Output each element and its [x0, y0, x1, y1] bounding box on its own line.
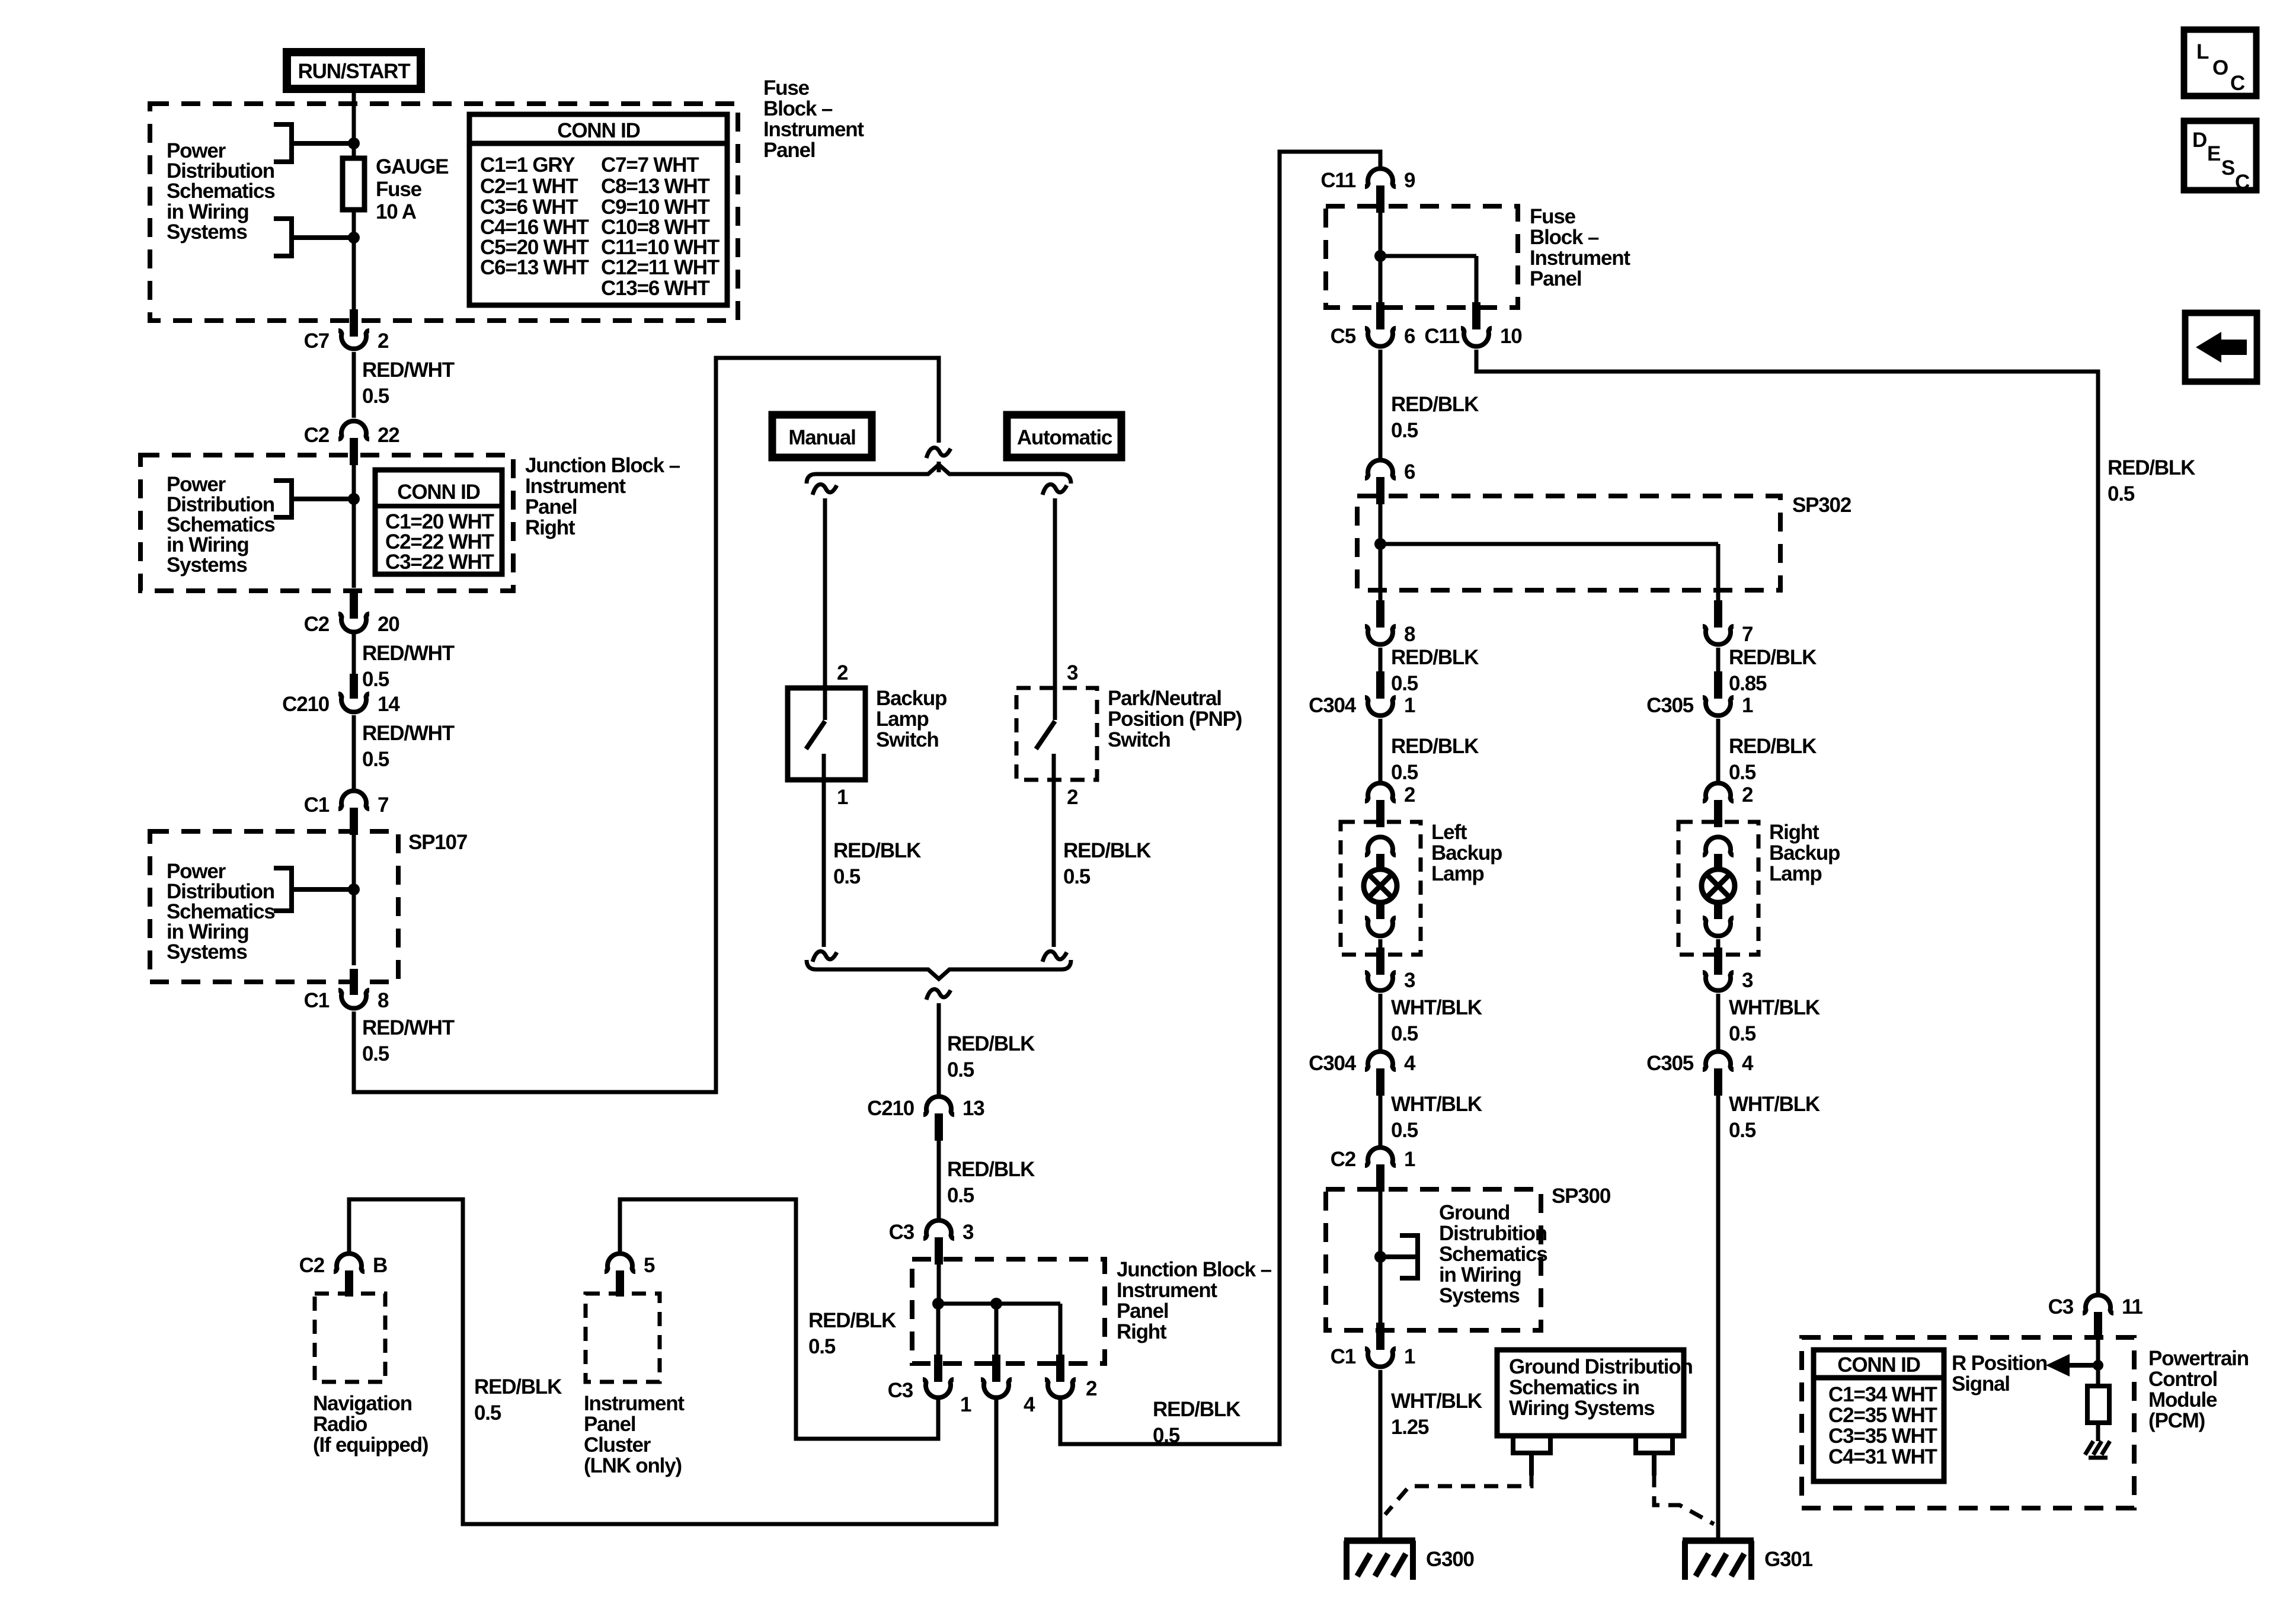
- junction block dashed box (instrument panel right): [140, 455, 513, 591]
- svg-text:Powertrain: Powertrain: [2148, 1347, 2249, 1370]
- wire label RED/BLK 0.5 (automatic): [1063, 839, 1151, 888]
- wire label WHT/BLK 0.5 (right): [1729, 996, 1820, 1045]
- svg-text:4: 4: [1024, 1393, 1035, 1416]
- svg-text:14: 14: [378, 693, 400, 716]
- connector C304 pin 4: [1309, 1051, 1416, 1096]
- text Junction Block - Instrument Panel Right (bottom): [1117, 1258, 1272, 1343]
- svg-text:C3=22 WHT: C3=22 WHT: [385, 550, 494, 574]
- connector C2 pin B (navigation radio): [299, 1253, 387, 1297]
- svg-text:C2=35 WHT: C2=35 WHT: [1828, 1404, 1937, 1427]
- wire through junction block: [352, 465, 356, 588]
- svg-text:RED/BLK: RED/BLK: [1729, 735, 1817, 758]
- svg-text:(LNK only): (LNK only): [584, 1454, 682, 1477]
- svg-text:RED/WHT: RED/WHT: [362, 722, 455, 745]
- svg-text:RED/BLK: RED/BLK: [474, 1375, 562, 1398]
- svg-text:2: 2: [1086, 1377, 1097, 1400]
- connector C210 pin 14: [282, 674, 400, 716]
- svg-text:0.5: 0.5: [947, 1058, 974, 1081]
- svg-text:RED/BLK: RED/BLK: [2108, 456, 2195, 479]
- svg-text:CONN ID: CONN ID: [557, 119, 639, 142]
- svg-text:C3: C3: [2048, 1295, 2074, 1318]
- svg-text:Block –: Block –: [1530, 226, 1599, 249]
- svg-text:0.5: 0.5: [1391, 419, 1418, 442]
- node junction dot SP107: [348, 884, 360, 895]
- node junction dot in junction block: [348, 493, 360, 505]
- Automatic tag box: [1007, 415, 1121, 457]
- connector pin 6 (SP302): [1365, 460, 1415, 504]
- left backup lamp: [1341, 821, 1502, 955]
- svg-text:WHT/BLK: WHT/BLK: [1729, 996, 1820, 1019]
- svg-text:8: 8: [378, 989, 389, 1012]
- svg-text:RED/BLK: RED/BLK: [1391, 646, 1479, 669]
- wire C5-6 to splice 6: [1379, 350, 1383, 458]
- svg-text:C210: C210: [282, 693, 330, 716]
- wire label RED/WHT 0.5: [362, 722, 455, 771]
- svg-text:Fuse: Fuse: [763, 76, 810, 100]
- svg-text:0.5: 0.5: [2108, 482, 2135, 505]
- svg-text:D: D: [2192, 129, 2207, 152]
- squiggle left branch bottom: [813, 951, 837, 962]
- svg-text:3: 3: [1742, 969, 1753, 992]
- svg-text:13: 13: [962, 1097, 984, 1120]
- svg-text:C: C: [2235, 171, 2250, 194]
- svg-text:Junction Block –: Junction Block –: [525, 454, 680, 477]
- wire continuation squiggle (top middle): [926, 447, 951, 458]
- wire 3 to C304-4: [1379, 994, 1383, 1049]
- text Ground Distrubition Schematics in Wiring Systems (SP300): [1439, 1201, 1547, 1307]
- connector C1 pin 7: [304, 790, 389, 835]
- svg-text:C2: C2: [304, 424, 330, 447]
- wire label RED/WHT 0.5: [362, 359, 455, 408]
- svg-text:Instrument: Instrument: [525, 475, 626, 498]
- svg-text:10 A: 10 A: [376, 200, 417, 223]
- svg-text:Systems: Systems: [1439, 1284, 1520, 1307]
- wire C304-1 to pin 2: [1379, 719, 1383, 781]
- svg-text:0.5: 0.5: [362, 385, 389, 408]
- svg-text:SP300: SP300: [1552, 1185, 1611, 1208]
- svg-text:Wiring Systems: Wiring Systems: [1509, 1397, 1655, 1420]
- junction block dashed box (bottom, instrument panel right): [912, 1259, 1105, 1363]
- wire C210 to C1: [352, 715, 356, 789]
- connector C1 pin 1 (SP300 out): [1331, 1323, 1415, 1368]
- wire PNP bottom pin 2: [1052, 754, 1056, 947]
- svg-text:Backup: Backup: [1431, 841, 1502, 865]
- svg-text:RED/BLK: RED/BLK: [1729, 646, 1817, 669]
- svg-text:C1: C1: [1331, 1345, 1356, 1368]
- connector C11 pin 9: [1320, 168, 1415, 213]
- svg-text:Instrument: Instrument: [1530, 247, 1630, 270]
- wires inside SP302: [1380, 504, 1718, 601]
- node junction dot below fuse: [348, 232, 360, 244]
- svg-text:7: 7: [378, 793, 388, 817]
- svg-text:0.5: 0.5: [1063, 865, 1091, 888]
- svg-text:SP107: SP107: [408, 831, 467, 854]
- PNP switch dashed box: [1016, 688, 1097, 780]
- svg-text:C2=1 WHT: C2=1 WHT: [480, 175, 578, 198]
- svg-text:C3: C3: [888, 1379, 913, 1402]
- svg-text:C2: C2: [304, 613, 330, 636]
- splice hook symbol (left): [1511, 1436, 1553, 1475]
- svg-text:Systems: Systems: [167, 940, 247, 964]
- svg-text:Schematics: Schematics: [167, 180, 275, 203]
- svg-text:RED/WHT: RED/WHT: [362, 1016, 455, 1039]
- svg-text:CONN ID: CONN ID: [397, 481, 479, 504]
- wire switch bottom pin 1: [822, 754, 826, 947]
- svg-text:0.5: 0.5: [474, 1401, 501, 1425]
- svg-text:10: 10: [1500, 325, 1522, 348]
- svg-text:RUN/START: RUN/START: [298, 60, 411, 83]
- text Power Distribution Schematics in Wiring Systems (junction block): [167, 473, 275, 577]
- svg-text:0.5: 0.5: [362, 1042, 389, 1065]
- text Powertrain Control Module (PCM): [2148, 1347, 2249, 1432]
- DESC reference box: [2184, 121, 2256, 194]
- wire right branch to PNP switch: [1053, 498, 1057, 720]
- wire C7 to C2: [352, 352, 356, 418]
- wire to C210-13: [937, 1003, 941, 1094]
- svg-text:C3=35 WHT: C3=35 WHT: [1828, 1425, 1937, 1448]
- svg-text:11: 11: [2122, 1295, 2142, 1318]
- svg-text:C12=11 WHT: C12=11 WHT: [601, 256, 720, 279]
- svg-text:Fuse: Fuse: [376, 178, 422, 201]
- text Fuse Block - Instrument Panel (left): [763, 76, 864, 162]
- fuse GAUGE 10A: [343, 155, 448, 223]
- svg-text:C1: C1: [304, 793, 330, 817]
- svg-text:C6=13 WHT: C6=13 WHT: [480, 256, 589, 279]
- wire resistor to ground: [2096, 1423, 2100, 1441]
- svg-text:Panel: Panel: [1530, 267, 1581, 290]
- connector pin 2 (right lamp): [1703, 783, 1753, 827]
- wire label RED/BLK 0.5 (nav): [474, 1375, 562, 1425]
- connector C2 pin 22: [304, 421, 400, 465]
- wire label RED/BLK 0.5 (manual): [833, 839, 921, 888]
- connector C305 pin 1: [1646, 671, 1753, 717]
- splice hook symbol (right): [1633, 1436, 1675, 1475]
- svg-text:B: B: [373, 1254, 387, 1277]
- svg-text:Systems: Systems: [167, 220, 247, 244]
- wire navigation radio C2-B loop to C3-4: [349, 1199, 996, 1524]
- svg-text:0.5: 0.5: [1729, 761, 1756, 784]
- svg-text:1.25: 1.25: [1391, 1416, 1429, 1439]
- wire label RED/BLK 0.85 (right leg): [1729, 646, 1817, 695]
- svg-text:S: S: [2221, 156, 2234, 180]
- wire C1-8 down, right and up to switches feed: [354, 358, 939, 1092]
- svg-text:C305: C305: [1646, 1052, 1694, 1075]
- wire through SP107: [352, 835, 356, 965]
- CONN ID table (fuse block): [469, 114, 727, 305]
- svg-text:Automatic: Automatic: [1017, 426, 1112, 449]
- fuse block dashed box (instrument panel): [150, 104, 738, 321]
- wire C305-4 down to G301: [1716, 1096, 1721, 1538]
- svg-text:Manual: Manual: [788, 426, 855, 449]
- svg-text:WHT/BLK: WHT/BLK: [1391, 1390, 1482, 1413]
- wire C11-10 to PCM C3-11: [1476, 350, 2098, 1293]
- svg-text:Lamp: Lamp: [876, 708, 929, 731]
- Manual tag box: [772, 415, 872, 457]
- connector C7 pin 2: [304, 309, 389, 353]
- wire label RED/BLK 0.5 (left of junction block): [808, 1309, 896, 1358]
- wire label RED/BLK 0.5: [947, 1032, 1035, 1081]
- svg-text:5: 5: [644, 1254, 655, 1277]
- wires inside right fuse block: [1380, 213, 1476, 303]
- svg-text:WHT/BLK: WHT/BLK: [1391, 996, 1482, 1019]
- connector C3 pin 11 (PCM): [2048, 1295, 2143, 1339]
- node dot C3-1 branch: [932, 1298, 944, 1310]
- wires inside junction block with bus: [938, 1265, 1060, 1355]
- wire C210-13 to C3-3: [937, 1141, 941, 1218]
- svg-text:Right: Right: [1117, 1320, 1167, 1343]
- wire instrument panel cluster loop to C3-1: [620, 1199, 938, 1439]
- connector pin 2 (left lamp): [1365, 783, 1415, 827]
- node junction dot above fuse: [348, 137, 360, 149]
- PCM dashed box: [1802, 1337, 2134, 1508]
- svg-text:C210: C210: [867, 1097, 914, 1120]
- wire C3-2 big loop up to C11-9: [1060, 152, 1380, 1444]
- reference bracket to Power Distribution Schematics (upper): [274, 122, 354, 164]
- svg-text:Switch: Switch: [1108, 728, 1171, 751]
- svg-text:0.5: 0.5: [1391, 1022, 1418, 1045]
- svg-text:RED/BLK: RED/BLK: [947, 1158, 1035, 1181]
- resistor (PCM pulldown): [2087, 1386, 2109, 1423]
- svg-text:Right: Right: [1769, 821, 1819, 844]
- svg-text:2: 2: [1742, 783, 1753, 806]
- node dot fuse block: [1374, 250, 1386, 262]
- node dot SP300: [1374, 1251, 1386, 1263]
- instrument panel cluster dashed box: [586, 1294, 660, 1382]
- reference bracket to Power Distribution Schematics (SP107): [274, 866, 354, 913]
- svg-text:C2: C2: [1331, 1148, 1356, 1171]
- wire label RED/BLK 0.5: [947, 1158, 1035, 1207]
- wire label RED/BLK 0.5: [1391, 393, 1479, 442]
- wire label RED/WHT 0.5: [362, 642, 455, 691]
- CONN ID table (PCM): [1814, 1350, 1944, 1481]
- svg-text:Lamp: Lamp: [1769, 862, 1822, 885]
- wire label WHT/BLK 1.25: [1391, 1390, 1482, 1439]
- svg-text:1: 1: [1742, 694, 1753, 717]
- navigation radio dashed box: [315, 1294, 385, 1382]
- connector C210 pin 13: [867, 1096, 984, 1141]
- svg-text:Signal: Signal: [1952, 1372, 2010, 1395]
- svg-text:C7=7 WHT: C7=7 WHT: [601, 153, 699, 177]
- svg-text:Panel: Panel: [584, 1413, 635, 1436]
- connector C304 pin 1: [1309, 671, 1415, 717]
- svg-text:0.85: 0.85: [1729, 672, 1767, 695]
- text Navigation Radio (If equipped): [313, 1392, 428, 1457]
- svg-text:C2: C2: [299, 1254, 325, 1277]
- svg-text:WHT/BLK: WHT/BLK: [1729, 1093, 1820, 1116]
- svg-text:(If equipped): (If equipped): [313, 1433, 428, 1457]
- RUN/START power tag box: [287, 52, 421, 89]
- svg-text:G301: G301: [1764, 1548, 1813, 1571]
- fuse block dashed box (right, instrument panel): [1326, 206, 1518, 308]
- svg-text:C11: C11: [1424, 325, 1459, 348]
- svg-text:L: L: [2196, 40, 2209, 63]
- wire label WHT/BLK 0.5 (left): [1391, 996, 1482, 1045]
- node dot C3-4 branch: [990, 1298, 1002, 1310]
- text Instrument Panel Cluster (LNK only): [584, 1392, 685, 1477]
- svg-text:C11: C11: [1320, 169, 1355, 192]
- svg-text:C1=34 WHT: C1=34 WHT: [1828, 1383, 1937, 1406]
- svg-text:4: 4: [1742, 1052, 1754, 1075]
- svg-text:C1=1 GRY: C1=1 GRY: [480, 153, 575, 177]
- text Park/Neutral Position (PNP) Switch: [1108, 687, 1242, 751]
- svg-text:4: 4: [1404, 1052, 1416, 1075]
- svg-text:RED/WHT: RED/WHT: [362, 642, 455, 665]
- svg-text:Panel: Panel: [1117, 1299, 1168, 1323]
- svg-text:Instrument: Instrument: [1117, 1279, 1217, 1302]
- svg-text:C7: C7: [304, 329, 329, 353]
- connector C3 pin 4: [981, 1355, 1035, 1416]
- chassis ground (PCM internal): [2085, 1441, 2110, 1458]
- connector C3 pin 3: [889, 1220, 974, 1265]
- wire label WHT/BLK 0.5 (left): [1391, 1093, 1482, 1142]
- svg-text:GAUGE: GAUGE: [376, 155, 448, 178]
- svg-text:Module: Module: [2148, 1388, 2217, 1411]
- wire label RED/BLK 0.5 (C3-2 out): [1153, 1398, 1240, 1447]
- text Junction Block - Instrument Panel Right: [525, 454, 680, 539]
- svg-text:C1: C1: [304, 989, 330, 1012]
- reference bracket to Power Distribution Schematics (lower): [274, 216, 354, 258]
- svg-text:RED/BLK: RED/BLK: [808, 1309, 896, 1332]
- connector pin 3 (right): [1703, 948, 1753, 992]
- connector C5 pin 6: [1331, 302, 1415, 348]
- svg-text:Junction Block –: Junction Block –: [1117, 1258, 1272, 1281]
- svg-text:O: O: [2212, 56, 2228, 79]
- svg-text:3: 3: [962, 1221, 974, 1244]
- svg-text:C304: C304: [1309, 1052, 1357, 1075]
- connector C11 pin 10: [1424, 302, 1522, 348]
- svg-text:0.5: 0.5: [1729, 1119, 1756, 1142]
- connector C3 pin 1: [888, 1355, 971, 1416]
- wire through SP300: [1379, 1192, 1383, 1324]
- text Power Distribution Schematics in Wiring Systems (fuse block): [167, 139, 275, 244]
- svg-text:6: 6: [1404, 325, 1415, 348]
- svg-text:RED/BLK: RED/BLK: [1153, 1398, 1240, 1421]
- svg-text:Schematics: Schematics: [1439, 1243, 1547, 1266]
- switch blade (PNP switch): [1036, 721, 1055, 749]
- squiggle below bottom brace: [926, 989, 951, 1000]
- svg-text:RED/WHT: RED/WHT: [362, 359, 455, 382]
- connector C3 pin 2: [1045, 1355, 1097, 1400]
- squiggle right branch bottom: [1043, 951, 1067, 962]
- connector C1 pin 8: [304, 969, 389, 1012]
- svg-text:Instrument: Instrument: [763, 118, 864, 141]
- svg-text:Fuse: Fuse: [1530, 205, 1576, 228]
- svg-text:0.5: 0.5: [833, 865, 861, 888]
- svg-text:Position (PNP): Position (PNP): [1108, 708, 1242, 731]
- wire RUN/START to fuse: [352, 93, 356, 158]
- svg-text:1: 1: [1404, 1148, 1415, 1171]
- svg-text:Cluster: Cluster: [584, 1433, 651, 1457]
- node dot PCM: [2093, 1360, 2103, 1371]
- svg-text:7: 7: [1742, 623, 1753, 646]
- svg-text:Control: Control: [2148, 1368, 2217, 1391]
- svg-text:E: E: [2207, 142, 2220, 165]
- wire squiggle to brace: [937, 462, 941, 472]
- wire C304-4 to C2-1: [1379, 1096, 1383, 1145]
- svg-text:C5: C5: [1331, 325, 1356, 348]
- switch blade (backup lamp switch): [806, 721, 825, 749]
- svg-text:C13=6 WHT: C13=6 WHT: [601, 277, 710, 300]
- svg-text:Left: Left: [1431, 821, 1467, 844]
- svg-text:Schematics in: Schematics in: [1509, 1376, 1639, 1399]
- svg-text:2: 2: [837, 661, 848, 684]
- svg-text:Park/Neutral: Park/Neutral: [1108, 687, 1221, 710]
- svg-text:Right: Right: [525, 516, 575, 539]
- svg-text:C304: C304: [1309, 694, 1357, 717]
- svg-text:(PCM): (PCM): [2148, 1409, 2205, 1432]
- svg-text:0.5: 0.5: [1391, 1119, 1418, 1142]
- text Fuse Block - Instrument Panel (right): [1530, 205, 1630, 290]
- svg-text:2: 2: [1404, 783, 1415, 806]
- connector C2 pin 1 (SP300): [1331, 1147, 1415, 1192]
- splice SP107 dashed box: [150, 831, 398, 982]
- brace merge (bottom): [807, 960, 1071, 979]
- svg-text:Backup: Backup: [1769, 841, 1840, 865]
- svg-text:1: 1: [960, 1393, 971, 1416]
- svg-text:R Position: R Position: [1952, 1352, 2047, 1375]
- svg-text:Panel: Panel: [525, 495, 577, 518]
- wire C305-1 to pin 2: [1716, 719, 1721, 781]
- wire left branch to backup lamp switch: [823, 498, 827, 720]
- svg-text:C305: C305: [1646, 694, 1694, 717]
- svg-text:RED/BLK: RED/BLK: [1391, 393, 1479, 416]
- svg-text:C4=31 WHT: C4=31 WHT: [1828, 1445, 1937, 1468]
- svg-text:1: 1: [1404, 694, 1415, 717]
- splice SP302 dashed box: [1357, 496, 1780, 590]
- svg-text:Ground Distribution: Ground Distribution: [1509, 1355, 1693, 1378]
- connector pin 8: [1365, 600, 1415, 646]
- brace split Manual/Automatic (top): [807, 465, 1071, 484]
- svg-text:1: 1: [1404, 1345, 1415, 1368]
- svg-text:2: 2: [378, 329, 389, 353]
- svg-text:0.5: 0.5: [808, 1335, 836, 1358]
- connector C2 pin 20: [304, 593, 400, 636]
- wire label RED/BLK 0.5 (far right): [2108, 456, 2195, 505]
- ground G300: [1344, 1541, 1475, 1580]
- connector C305 pin 4: [1646, 1051, 1754, 1096]
- svg-text:Distrubition: Distrubition: [1439, 1222, 1547, 1245]
- CONN ID table (junction block): [375, 470, 502, 574]
- svg-text:22: 22: [378, 424, 399, 447]
- wire label RED/WHT 0.5: [362, 1016, 455, 1065]
- svg-text:Ground: Ground: [1439, 1201, 1510, 1224]
- svg-text:Block –: Block –: [763, 97, 833, 120]
- reference bracket to Ground Distrubition Schematics (SP300): [1380, 1233, 1418, 1281]
- svg-text:WHT/BLK: WHT/BLK: [1391, 1093, 1482, 1116]
- svg-text:Switch: Switch: [876, 728, 939, 751]
- right backup lamp: [1678, 821, 1840, 955]
- svg-text:0.5: 0.5: [947, 1184, 974, 1207]
- svg-text:0.5: 0.5: [1391, 761, 1418, 784]
- svg-text:0.5: 0.5: [362, 668, 389, 691]
- wire fuse to connector C7: [352, 210, 356, 311]
- svg-text:C3: C3: [889, 1221, 914, 1244]
- svg-text:C: C: [2230, 72, 2245, 95]
- svg-text:Navigation: Navigation: [313, 1392, 412, 1415]
- splice SP300 dashed box: [1326, 1189, 1541, 1330]
- svg-text:3: 3: [1067, 661, 1078, 684]
- back arrow box: [2185, 313, 2257, 382]
- svg-text:RED/BLK: RED/BLK: [1063, 839, 1151, 862]
- svg-text:1: 1: [837, 786, 848, 809]
- wire 7 to C305-1: [1716, 648, 1721, 671]
- svg-text:Systems: Systems: [167, 553, 247, 577]
- connector pin 3 (left): [1365, 948, 1415, 992]
- wire label RED/BLK 0.5: [1729, 735, 1817, 784]
- svg-text:3: 3: [1404, 969, 1415, 992]
- wire inside PCM: [2096, 1339, 2100, 1386]
- svg-text:20: 20: [378, 613, 399, 636]
